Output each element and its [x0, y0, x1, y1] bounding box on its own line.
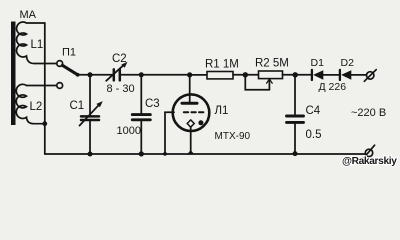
node: L2 bottom junction [42, 121, 47, 126]
wire: antenna tap vertical (L1 top to bottom bus) [44, 23, 46, 154]
capacitor C4 plates [287, 115, 304, 118]
wire: lever to node A [78, 74, 90, 76]
tube Л1 cathode lead [190, 127, 192, 151]
node: C4 bottom [293, 151, 298, 156]
tube Л1 cathode diamond [187, 120, 194, 127]
tube Л1 grid lead [165, 112, 174, 154]
capacitor C1 plates [81, 115, 99, 118]
watermark @Rakarskiy [342, 156, 397, 167]
capacitor C4 lead bottom [294, 124, 296, 154]
diode D2 cathode bar [339, 70, 341, 80]
capacitor C4 lead top [294, 75, 296, 114]
svg-text:8 - 30: 8 - 30 [107, 83, 135, 95]
switch П1 lower contact [57, 83, 63, 89]
svg-text:C2: C2 [112, 53, 127, 65]
capacitor C3 lead top [140, 75, 142, 113]
terminal: mains bottom [365, 149, 372, 156]
node A (C1 top) [88, 72, 93, 77]
svg-text:~220 В: ~220 В [351, 107, 386, 119]
wire: D1 to D2 [323, 74, 339, 76]
node: C1 bottom [88, 152, 93, 157]
wire: anode lead [189, 75, 191, 102]
capacitor C3 plates [132, 113, 150, 116]
capacitor C3 lead bottom [140, 121, 142, 154]
tube Л1 anode bar [182, 102, 197, 105]
terminal: mains top [367, 72, 374, 79]
svg-text:R2 5M: R2 5M [255, 58, 289, 70]
diode D1 cathode bar [311, 70, 313, 80]
wire: R2 wiper return [245, 75, 269, 90]
ferrite rod MA [11, 22, 16, 126]
wire: C2 to node B [121, 74, 190, 76]
capacitor C1 lead bottom [89, 121, 91, 154]
svg-text:C3: C3 [145, 98, 160, 110]
tube Л1 grid (dashed) [184, 111, 206, 113]
tube Л1 gas dot [198, 120, 203, 125]
wire: node A to C2 [90, 74, 113, 76]
wire: bus to R1 [190, 74, 207, 76]
wire: R2 to node D [283, 74, 312, 76]
capacitor C1 (variable) lead top [89, 75, 91, 116]
capacitor C2 (variable, series) plates [113, 69, 116, 80]
svg-text:П1: П1 [62, 47, 76, 59]
tube Л1 envelope [173, 94, 210, 131]
switch П1 lever [62, 65, 77, 74]
wire: bottom bus [45, 153, 365, 155]
resistor R1 [207, 72, 233, 79]
node B (C3 top) [139, 72, 144, 77]
resistor R2 (potentiometer) [259, 71, 283, 79]
svg-text:D2: D2 [341, 57, 355, 69]
svg-text:L1: L1 [31, 39, 44, 51]
svg-text:C1: C1 [70, 100, 85, 112]
coil L2 [16, 84, 56, 123]
node C (R1/R2 junction) [243, 72, 248, 77]
svg-text:MA: MA [20, 9, 37, 21]
svg-text:0.5: 0.5 [306, 129, 322, 141]
svg-text:C4: C4 [306, 105, 321, 117]
svg-text:@Rakarskiy: @Rakarskiy [342, 156, 397, 167]
capacitor C2 arrow [106, 65, 123, 81]
svg-text:МТХ-90: МТХ-90 [215, 131, 251, 142]
node: grid lead bottom [163, 152, 167, 156]
capacitor C1 arrow [80, 105, 99, 125]
svg-text:R1 1M: R1 1M [205, 59, 239, 71]
svg-text:1000: 1000 [117, 125, 141, 137]
switch П1 upper contact [57, 61, 63, 67]
diode D2 triangle [341, 70, 351, 80]
node: C3 bottom [139, 151, 144, 156]
node D (C4 / D1) [293, 72, 298, 77]
diode D1 triangle [313, 70, 323, 80]
wire: R1 to node C [233, 74, 259, 76]
R2 wiper arrow [268, 81, 270, 90]
svg-text:L2: L2 [30, 101, 43, 113]
svg-text:D1: D1 [311, 57, 325, 69]
svg-text:Д 226: Д 226 [319, 81, 347, 93]
svg-text:Л1: Л1 [215, 105, 229, 117]
coil L1 [17, 22, 57, 64]
wire: D2 to mains terminal [351, 74, 366, 76]
node: tube anode junction [187, 72, 192, 77]
